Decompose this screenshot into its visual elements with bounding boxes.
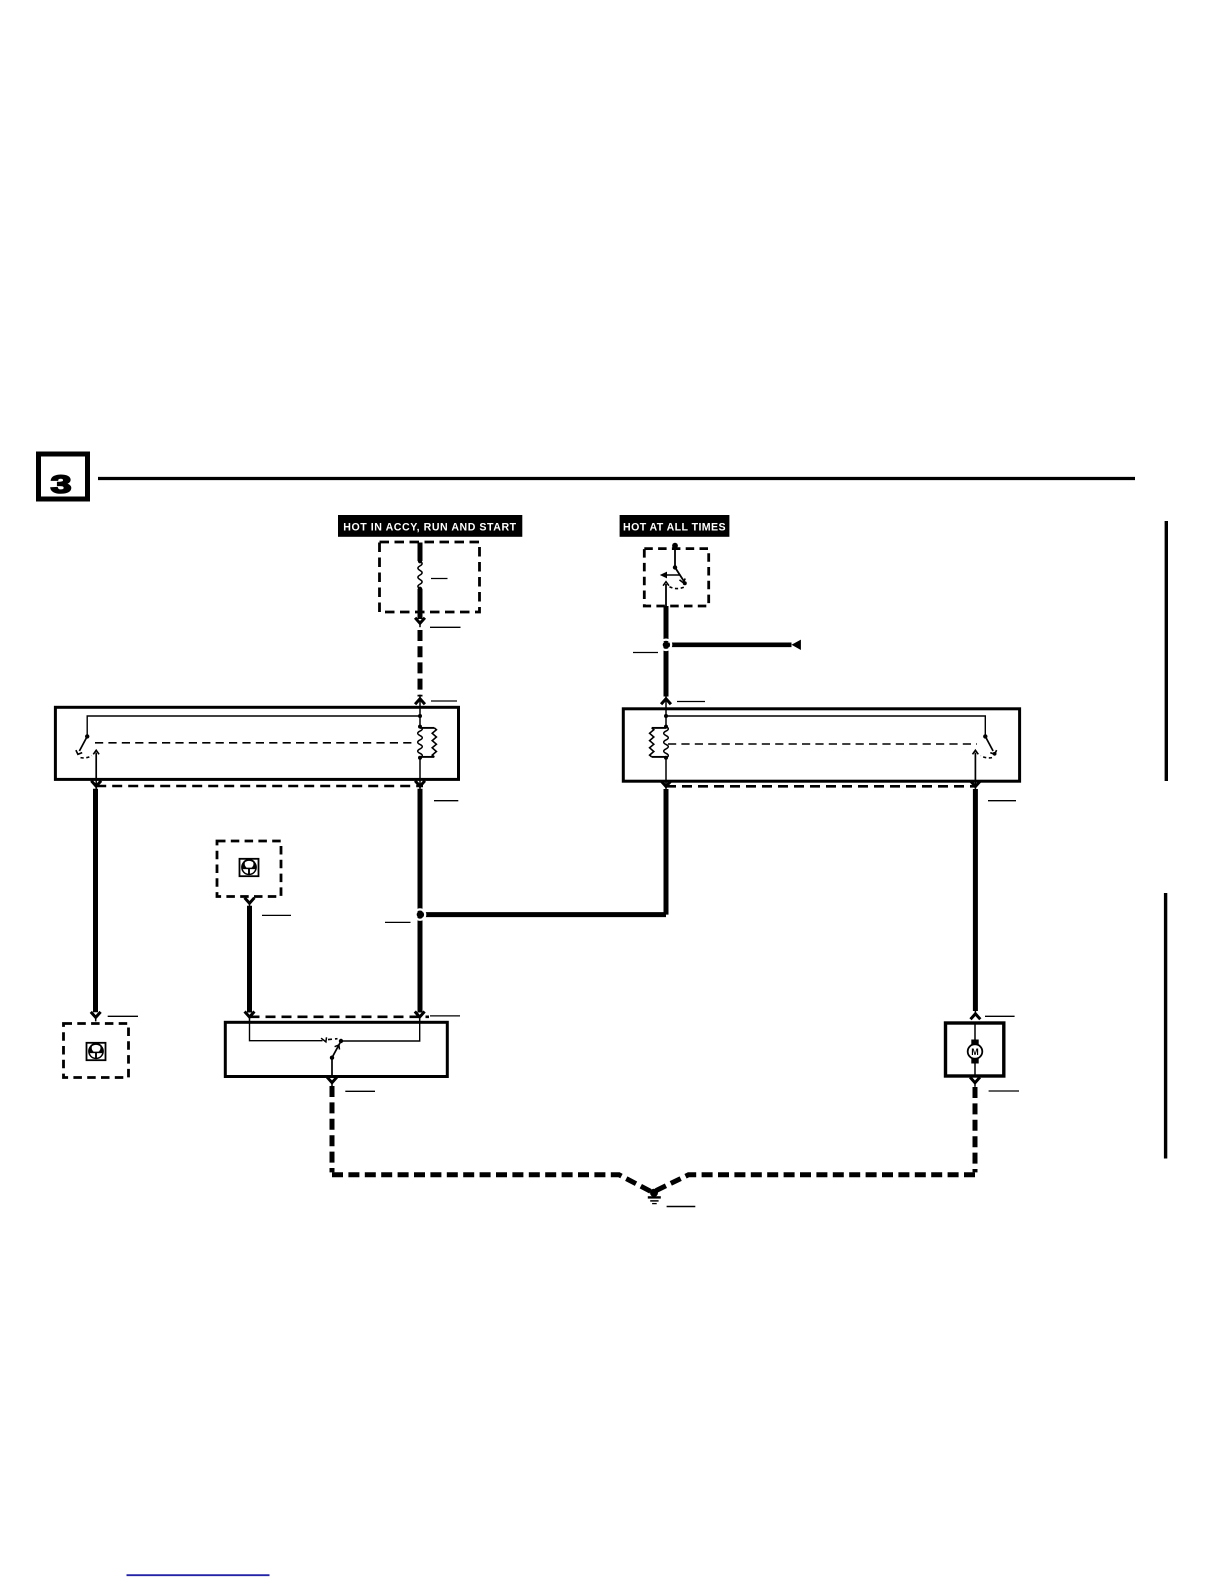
wire label line below fuse: [430, 626, 461, 628]
connector arrow into K1: [415, 699, 425, 705]
ground bus left (dashed): [332, 1175, 653, 1193]
wire junction to K2: [664, 647, 669, 697]
wire label line above K1: [431, 700, 457, 702]
connector arrow K1 left exit: [91, 781, 101, 787]
ignition switch box (dashed): [644, 549, 708, 606]
switch S1 box: [225, 1022, 447, 1076]
K2 coil bottom wire: [665, 758, 667, 781]
K2 coil link (dashed): [668, 743, 977, 745]
S1 rest-position dashes: [328, 1038, 338, 1041]
ignition travel arc (dashed): [669, 587, 684, 589]
wire K1 to horn H1: [93, 789, 98, 1012]
connector arrow K2 left exit: [661, 781, 671, 787]
K1 switch travel arc (dashed): [81, 756, 92, 758]
wire label line above K2: [677, 701, 705, 703]
wire junction to connector arrow E: [666, 642, 792, 647]
relay K2 box: [623, 709, 1019, 781]
S1 pivot: [330, 1056, 334, 1060]
horn H2 symbol: [242, 859, 256, 869]
K2 switch pivot: [983, 734, 987, 738]
S1 blade top terminal: [339, 1039, 343, 1043]
S1 left contact arrow: [321, 1037, 326, 1042]
wire (dashed) fuse to relay K1: [418, 630, 423, 697]
junction label line: [385, 921, 411, 923]
wire stub into K1: [419, 699, 421, 716]
connector line above S1 (dashed): [250, 1015, 430, 1018]
connector triangle arrow E: [792, 640, 801, 650]
wire ignition to junction: [664, 606, 669, 642]
junction donut: [415, 909, 425, 919]
ignition run-position arrow: [667, 574, 681, 576]
connector arrow below fuse box: [415, 618, 425, 624]
ground G1: [650, 1189, 658, 1197]
K1 contact arrow: [93, 750, 99, 754]
connector line below K1 (dashed): [96, 785, 423, 788]
connector arrow K2 right exit: [974, 781, 976, 786]
footer blue rule: [127, 1574, 270, 1576]
motor M1 ground wire: [974, 1064, 976, 1077]
ignition switch pivot: [673, 565, 677, 569]
S1 blade: [332, 1041, 341, 1058]
connector arrow below motor: [970, 1077, 980, 1083]
horn H1 box (dashed): [64, 1024, 129, 1078]
wire label line at S1 right: [430, 1015, 460, 1017]
K2 switch travel arc (dashed): [981, 756, 992, 758]
connector arrow wire C into S1: [245, 1012, 255, 1018]
motor M1 brush lower: [971, 1058, 978, 1064]
svg-text:HOT IN ACCY, RUN AND START: HOT IN ACCY, RUN AND START: [343, 522, 516, 534]
K2 coil: [665, 716, 667, 727]
K1 switch pivot: [85, 734, 89, 738]
wire label line below K2 right: [988, 800, 1016, 802]
label HOT IN ACCY, RUN AND START: [338, 515, 522, 537]
connector line below K2 (dashed): [666, 785, 976, 788]
ignition contact arrow: [663, 582, 669, 586]
wire (dashed) S1 to ground: [330, 1086, 335, 1172]
right margin bar lower: [1164, 893, 1167, 1159]
connector arrow wire B into S1: [415, 1012, 425, 1018]
K2 contact arrow: [973, 750, 979, 754]
motor M1 brush upper: [971, 1040, 978, 1046]
fuse box (dashed): [380, 542, 480, 612]
right margin bar upper: [1165, 521, 1168, 781]
S1 right contact wire: [341, 1022, 420, 1041]
label HOT AT ALL TIMES: [620, 515, 730, 537]
horn H2 box (dashed): [217, 841, 281, 897]
connector arrow into H1: [91, 1012, 101, 1018]
K2 contact wire: [974, 753, 976, 781]
wire label line below K1 right: [434, 800, 458, 802]
wire K2 coil to junction cross: [664, 789, 669, 915]
S1 pivot wire: [331, 1058, 333, 1077]
svg-text:M: M: [971, 1047, 979, 1057]
wire label line below motor: [989, 1090, 1019, 1092]
wire label line left of junction: [633, 652, 658, 654]
connector arrow into K2: [661, 699, 671, 705]
wire (dashed) motor to ground: [973, 1087, 978, 1172]
horn H1 inner frame: [87, 1043, 106, 1060]
connector arrow into motor: [971, 1014, 981, 1020]
junction donut right: [661, 640, 671, 650]
ignition switch arm wire: [674, 546, 676, 568]
K1 contact wire: [95, 753, 97, 780]
K1 coil: [419, 716, 421, 727]
ignition contact wire: [665, 584, 667, 606]
wire label line below H2: [262, 914, 291, 916]
fuse rating label line: [431, 578, 448, 580]
wire label line below S1: [345, 1090, 375, 1092]
wire junction cross to K2 coil: [420, 912, 666, 917]
wire fuse feed: [418, 543, 423, 562]
K1 switch blade: [79, 736, 87, 751]
relay K1 box: [55, 707, 458, 779]
fuse F1 element: [418, 559, 422, 563]
motor M1 feed wire: [974, 1023, 976, 1040]
wire K2 to motor: [973, 789, 978, 1011]
wire stub into K2: [665, 699, 667, 716]
horn H1 symbol: [89, 1043, 103, 1053]
svg-text:HOT AT ALL TIMES: HOT AT ALL TIMES: [623, 522, 726, 534]
wire K1 coil down to S1: [418, 789, 423, 1013]
K2 internal wire coil-to-switch: [666, 716, 985, 735]
wire H2 to S1: [247, 906, 252, 1013]
connector arrow below S1: [327, 1077, 337, 1083]
K1 left exit stub: [95, 780, 97, 785]
svg-text:3: 3: [51, 470, 72, 498]
S1 left contact wire: [250, 1022, 323, 1040]
wire fuse to connector: [418, 589, 423, 619]
ignition feed terminal: [672, 543, 678, 549]
horn H2 inner frame: [240, 859, 259, 876]
motor M1 body: [968, 1044, 983, 1059]
header rule: [98, 477, 1135, 480]
K1 coil bottom wire: [419, 758, 421, 780]
page number box: [39, 454, 88, 499]
wire label line at H1: [108, 1015, 138, 1017]
K1 coil link (dashed): [95, 742, 416, 744]
connector arrow K1 right exit: [419, 780, 421, 785]
connector arrow below H2: [245, 898, 255, 904]
motor M1 box: [946, 1023, 1004, 1076]
K1 internal wire coil-to-switch: [87, 716, 420, 735]
wire label line at motor: [985, 1015, 1015, 1017]
ground label line: [667, 1206, 696, 1208]
K2 left exit stub: [665, 781, 667, 786]
ground bus right (dashed): [653, 1175, 976, 1193]
ignition switch blade: [675, 567, 684, 581]
K2 switch blade: [985, 736, 993, 751]
